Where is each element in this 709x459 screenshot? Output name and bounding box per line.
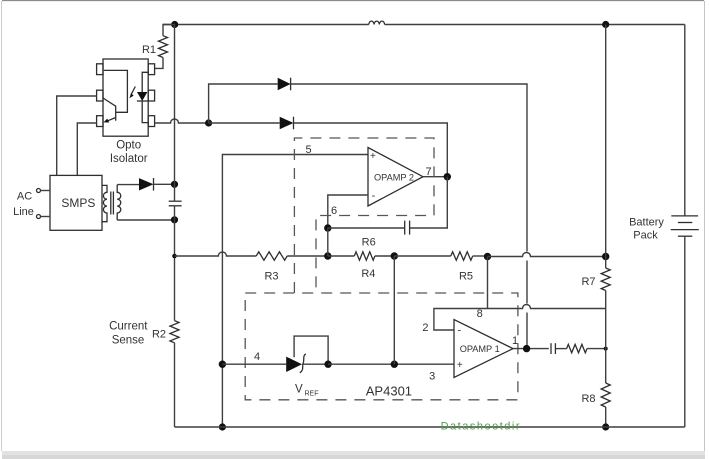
wire secondary top to rectifier diode: [117, 184, 139, 186]
wire opamp2 inverting input loop to node 6: [328, 195, 368, 228]
wire right edge lower: [684, 236, 686, 427]
wire pin8 vertical to R5 node: [487, 257, 489, 309]
svg-text:R7: R7: [581, 276, 595, 288]
node R5/pin8 junction: [484, 253, 491, 260]
svg-text:OPAMP 1: OPAMP 1: [460, 344, 500, 354]
wire row right (hop over x527 vertical) to R7 node: [488, 253, 606, 257]
svg-text:Isolator: Isolator: [110, 153, 148, 165]
wire row: tee to R3 (hop over x222 vertical): [175, 252, 257, 256]
wire opto mid-left pin to SMPS: [57, 96, 97, 175]
svg-text:Opto: Opto: [116, 140, 141, 152]
rectifier diode D3: [139, 178, 154, 190]
svg-text:6: 6: [331, 205, 337, 217]
node opamp1 output junction: [523, 345, 530, 352]
wire D2 to opamp2 output node: [294, 123, 448, 177]
wire node to D2: [209, 122, 280, 124]
svg-text:Pack: Pack: [633, 229, 658, 241]
svg-text:REF: REF: [305, 391, 319, 398]
node DC+: [171, 181, 178, 188]
wire top dot down to row node: [605, 25, 607, 257]
svg-text:AP4301: AP4301: [366, 384, 412, 399]
node vref cathode junction: [324, 361, 331, 368]
wire R8 to bottom rail: [605, 407, 607, 427]
opto pin bottom-right: [148, 116, 154, 127]
capacitor C3 (output compensation): [550, 343, 552, 354]
resistor R8: [601, 383, 610, 407]
dashed enclosure AP4301: [245, 293, 518, 400]
node pin3 / R4R5 vertical junction: [391, 361, 398, 368]
svg-text:R8: R8: [581, 393, 595, 405]
resistor R7: [605, 257, 607, 269]
svg-text:Datasheetdir: Datasheetdir: [441, 421, 521, 433]
wire node to R5: [394, 255, 451, 257]
battery pack BT1: [671, 215, 698, 217]
svg-text:2: 2: [422, 322, 428, 334]
svg-text:Sense: Sense: [112, 334, 145, 346]
wire resistor to R7R8 vertical: [587, 348, 606, 350]
transformer T1 secondary: [117, 185, 121, 220]
wire top rail left: [163, 24, 369, 26]
node 6 junction: [324, 224, 331, 231]
node top-right junction: [602, 21, 609, 28]
zener reference VREF: [286, 357, 302, 372]
svg-text:R4: R4: [361, 268, 375, 280]
diode D2: [280, 117, 294, 129]
opto internal LED: [142, 72, 149, 92]
op-amp U1A (OPAMP 1): [454, 320, 513, 378]
wire opamp2 output: [423, 176, 447, 178]
AC terminal top: [37, 189, 41, 193]
wire cap to resistor: [555, 348, 566, 350]
AC terminal bottom: [37, 215, 41, 219]
wire pin5 net: opamp2 + input, down left vertical to bottom rail: [222, 155, 368, 365]
svg-text:-: -: [372, 190, 376, 202]
node DC-: [171, 216, 178, 223]
opto internal phototransistor: [104, 70, 128, 112]
opto pin mid-right: [148, 90, 154, 101]
SMPS box U3: [50, 175, 102, 230]
svg-text:OPAMP 2: OPAMP 2: [374, 172, 414, 182]
wire pin4 to zener: [222, 363, 286, 365]
svg-text:AC: AC: [17, 191, 32, 203]
wire node6 down to row: [327, 228, 329, 256]
wire feedback to capacitor: [328, 227, 405, 229]
node opamp2 output junction: [444, 173, 451, 180]
wire opamp1 output: [513, 348, 549, 350]
svg-text:R5: R5: [459, 271, 473, 283]
dashed enclosure opamp2 section: [294, 138, 434, 293]
wire left vertical (top dot down to cap, hop of horizontal at 123 drawn on horizontal): [174, 25, 176, 321]
node diode branch junction: [205, 119, 212, 126]
node bottom rail junction right: [602, 423, 609, 430]
node R3/R4/pin6 junction: [324, 252, 331, 259]
wire pin2 loop and pin8 line (hop over x527): [434, 305, 606, 331]
opto pin mid-left: [97, 90, 103, 101]
wire secondary bottom to DC- node: [117, 219, 174, 221]
wire right edge upper: [684, 25, 686, 216]
wire top rail right: [385, 24, 685, 26]
svg-text:+: +: [370, 151, 376, 162]
svg-text:5: 5: [305, 144, 311, 156]
wire capacitor to output node: [410, 177, 448, 228]
wire D1 to right corner, down to opamp1 output (hops at row and pin8 line): [291, 84, 527, 349]
resistor R5: [451, 252, 473, 260]
wire R2 to bottom rail: [174, 343, 176, 427]
transformer T1 primary: [102, 185, 107, 221]
svg-text:4: 4: [254, 351, 260, 363]
svg-text:3: 3: [429, 371, 435, 383]
svg-text:1: 1: [512, 335, 518, 347]
opto pin top-left: [97, 64, 103, 75]
wire opto bottom-left pin to SMPS: [77, 123, 96, 175]
svg-text:Line: Line: [13, 206, 34, 218]
svg-text:R6: R6: [362, 237, 376, 249]
svg-text:R2: R2: [152, 329, 166, 341]
diode D1: [278, 78, 291, 90]
wire R5 to node: [473, 255, 488, 257]
wire vref node to opamp1 + input: [328, 363, 454, 365]
resistor R1: [163, 25, 175, 36]
svg-text:-: -: [457, 325, 461, 337]
wire zener cathode to node: [302, 363, 328, 365]
node compensation tee small: [604, 347, 608, 351]
capacitor C1 (filter): [169, 200, 182, 202]
svg-text:R3: R3: [264, 271, 278, 283]
capacitor C2 (opamp2 feedback): [404, 221, 406, 235]
node row tee small: [172, 254, 177, 259]
svg-text:SMPS: SMPS: [61, 196, 95, 210]
transformer T1 core: [110, 192, 112, 215]
svg-text:8: 8: [477, 308, 483, 320]
wire opto bottom-right pin to diode node (hop over vertical): [155, 119, 209, 123]
node row / R7 top junction: [602, 253, 609, 260]
op-amp U1B (OPAMP 2): [368, 148, 423, 207]
svg-text:V: V: [295, 384, 303, 396]
wire node up to diode D1 row: [209, 84, 278, 123]
node R4/R5 junction: [391, 252, 398, 259]
svg-text:Current: Current: [109, 320, 148, 332]
opto light arrow: [131, 87, 135, 95]
node top-left junction: [171, 21, 178, 28]
wire vref reference loop: [294, 336, 328, 364]
opto pin bottom-left: [97, 116, 103, 127]
wire R7 to R8: [605, 291, 607, 384]
node bottom rail junction left: [219, 423, 226, 430]
svg-text:Battery: Battery: [629, 216, 664, 228]
svg-text:+: +: [457, 360, 463, 371]
node pin4 junction: [219, 361, 226, 368]
wire R4 to node: [375, 255, 394, 257]
resistor R3: [256, 252, 287, 260]
wire bottom rail: [175, 426, 685, 428]
wire R4R5 node down to pin3 line: [393, 256, 395, 364]
opto pin top-right: [148, 64, 154, 75]
wire R3 to node: [287, 255, 328, 257]
svg-text:R1: R1: [142, 44, 156, 56]
inductor: [369, 21, 385, 24]
resistor R4: [328, 255, 355, 257]
opto isolator U2 body: [103, 59, 148, 136]
wire diode to DC node: [154, 183, 175, 185]
resistor R2 (current sense): [170, 321, 179, 343]
resistor R9 (compensation): [567, 344, 587, 352]
